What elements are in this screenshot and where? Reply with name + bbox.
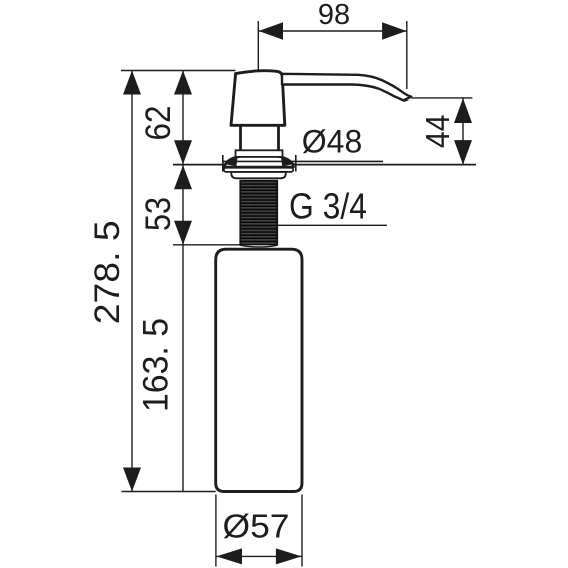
pump head: [231, 71, 285, 126]
dim 44 arrow bottom: [454, 140, 472, 165]
dim 98 extension line right: [406, 21, 408, 89]
spout: [282, 74, 411, 101]
spout tip nub: [403, 99, 410, 102]
svg-text:Ø48: Ø48: [302, 123, 362, 159]
dim 278.5 line: [131, 71, 133, 492]
dim 44 arrow top: [454, 98, 472, 123]
svg-text:62: 62: [139, 106, 178, 141]
svg-text:163. 5: 163. 5: [137, 318, 176, 412]
dim 57 extension line right: [301, 495, 303, 567]
flange dome: [225, 156, 294, 167]
G 3/4 leader line: [278, 224, 387, 226]
dim 98 arrow right: [382, 22, 406, 40]
bottle: [216, 249, 302, 491]
dim 48 arrow right: [281, 157, 295, 167]
dim 44 top extension line: [412, 97, 473, 99]
dim 62 arrow top: [174, 71, 192, 95]
dim 53 arrow top: [174, 165, 192, 189]
escutcheon plate: [224, 168, 293, 172]
collar: [236, 150, 283, 157]
svg-text:278. 5: 278. 5: [88, 220, 127, 324]
dim 62 arrow bottom: [174, 140, 192, 164]
dim 98 arrow left: [259, 22, 283, 40]
dim 44 line: [462, 98, 464, 164]
dim 57 arrow left: [216, 548, 242, 564]
dim 98 extension line left: [257, 21, 259, 71]
dim 48 tick right: [295, 155, 297, 172]
dim 48 arrow left: [223, 157, 237, 167]
deck mounting line: [173, 164, 476, 166]
dim 57 extension line left: [215, 495, 217, 567]
dim 57 arrow right: [276, 548, 302, 564]
svg-text:53: 53: [139, 197, 178, 231]
svg-text:98: 98: [318, 0, 350, 31]
svg-text:G 3/4: G 3/4: [289, 186, 367, 227]
svg-text:Ø57: Ø57: [223, 508, 290, 545]
bottom extension line: [122, 491, 216, 493]
dim 163.5 line: [182, 245, 184, 492]
dim 48 tick left: [222, 155, 224, 172]
locknut body: [231, 172, 285, 178]
neck: [239, 127, 242, 151]
dim 62/53 shared line: [182, 71, 184, 245]
svg-text:44: 44: [419, 115, 456, 149]
dim 53 bottom extension line: [173, 244, 241, 246]
dim 57 line: [216, 555, 302, 557]
dim 48 line: [223, 160, 383, 162]
dim 53 arrow bottom: [174, 221, 192, 245]
top extension line: [121, 70, 236, 72]
threaded shank G 3/4: [240, 180, 279, 246]
dim 278.5 arrow bottom: [123, 468, 141, 492]
dim 98 line: [258, 30, 407, 32]
dim 278.5 arrow top: [123, 71, 141, 95]
